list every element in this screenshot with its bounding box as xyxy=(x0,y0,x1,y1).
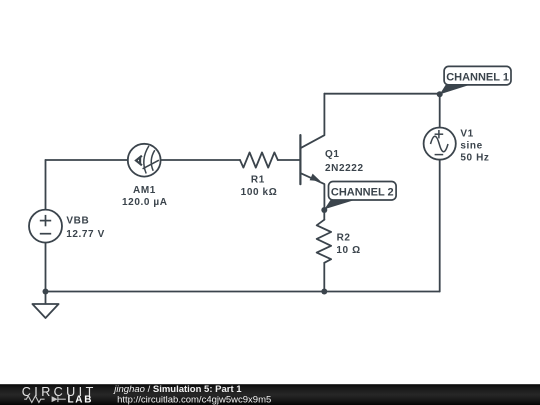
svg-text:12.77 V: 12.77 V xyxy=(66,229,105,240)
svg-text:100 kΩ: 100 kΩ xyxy=(241,187,278,198)
svg-text:Q1: Q1 xyxy=(325,149,340,160)
svg-text:120.0 µA: 120.0 µA xyxy=(122,197,168,208)
svg-text:AM1: AM1 xyxy=(133,185,156,196)
svg-text:http://circuitlab.com/c4gjw5wc: http://circuitlab.com/c4gjw5wc9x9m5 xyxy=(117,394,271,405)
svg-text:R1: R1 xyxy=(251,175,265,186)
svg-text:CHANNEL 1: CHANNEL 1 xyxy=(446,71,509,83)
svg-text:10 Ω: 10 Ω xyxy=(336,245,360,256)
svg-text:CHANNEL 2: CHANNEL 2 xyxy=(331,186,394,198)
svg-text:50 Hz: 50 Hz xyxy=(460,152,489,163)
svg-text:R2: R2 xyxy=(337,232,351,243)
svg-text:VBB: VBB xyxy=(66,216,89,227)
svg-text:2N2222: 2N2222 xyxy=(325,163,364,174)
svg-text:sine: sine xyxy=(460,140,482,151)
svg-text:LAB: LAB xyxy=(68,395,94,405)
svg-text:V1: V1 xyxy=(460,129,473,140)
